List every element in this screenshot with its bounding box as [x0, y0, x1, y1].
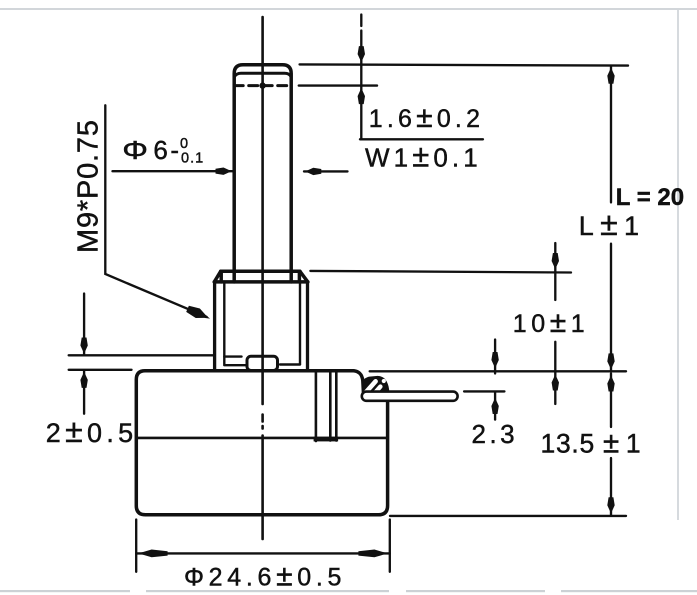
dimension 13.5±1: upper segment arrow up	[610, 374, 612, 427]
washer inner short lines	[224, 357, 300, 366]
dimension phi6: right line and arrow	[304, 170, 348, 172]
leader line M9*P0.75 with arrow	[105, 105, 206, 316]
shaft top chamfer line	[235, 73, 291, 76]
bushing top cap	[214, 271, 307, 282]
body step curve at top right	[354, 371, 364, 392]
center line (vertical axis of shaft and body)	[261, 17, 264, 539]
svg-text:W1±0.1: W1±0.1	[365, 139, 482, 174]
bushing outer walls	[215, 282, 308, 371]
dimension 1.6: top dashes and down arrow	[360, 15, 362, 27]
scan artifact: faint bottom border segments	[0, 590, 697, 592]
body mid seam line	[136, 437, 387, 440]
svg-text:Φ24.6±0.5: Φ24.6±0.5	[184, 559, 346, 592]
shaft outline	[234, 65, 291, 272]
dimension 2.3: upper segment arrow down	[494, 340, 496, 374]
extension line: shaft flat level to right	[299, 84, 377, 86]
svg-text:6-: 6-	[153, 135, 181, 165]
bushing inner (hex flat) walls	[224, 282, 300, 364]
extension line: body bottom left tick	[135, 520, 137, 572]
dimension 10±1: upper segment arrow down	[554, 243, 556, 300]
hatching gaps (white)	[366, 381, 375, 392]
extension line: body top to right	[370, 370, 626, 372]
svg-text:0.1: 0.1	[181, 151, 204, 167]
dimension 1.6: vertical through lines and up arrow	[360, 64, 362, 140]
scan artifact: faint right border line	[677, 10, 679, 520]
svg-text:13.5 ± 1: 13.5 ± 1	[541, 426, 642, 459]
dimension 2±0.5: lower segment arrow up	[83, 370, 85, 414]
anti-rotation tab	[247, 356, 278, 370]
svg-text:2.3: 2.3	[472, 419, 519, 449]
junction dot on centre line	[259, 82, 265, 88]
extension line: terminal top level	[464, 390, 504, 392]
svg-text:2±0.5: 2±0.5	[46, 413, 138, 449]
extension line: bushing top to right	[310, 271, 571, 273]
terminal mount (hatched lug base)	[362, 376, 389, 392]
scan artifact: faint top border line	[0, 8, 697, 10]
svg-text:10±1: 10±1	[513, 306, 590, 339]
shaft flat dashed line (W1)	[234, 84, 291, 87]
dimension 2±0.5: upper segment arrow down	[83, 294, 85, 355]
dimension L: upper segment arrow up at top	[610, 66, 612, 203]
svg-text:Φ: Φ	[122, 136, 148, 165]
washer top line extending left	[69, 354, 215, 356]
dimension 2.3: lower segment arrow up	[494, 392, 496, 420]
dimension phi24.6: line with outward arrows	[136, 552, 390, 554]
body outline	[136, 371, 387, 515]
svg-text:L = 20: L = 20	[616, 184, 684, 211]
dimension phi6: left line and arrow	[113, 170, 233, 172]
extension line: body bottom to right	[390, 515, 626, 517]
dimension 10±1: lower segment arrow up	[554, 342, 556, 404]
thick seam junction under internal lines	[314, 437, 339, 442]
dimension 1.6: leader underline	[360, 138, 483, 140]
extension line: body bottom right tick	[389, 520, 391, 572]
svg-text:L±1: L±1	[579, 206, 646, 242]
dimension 13.5±1: lower segment arrow down	[610, 458, 612, 515]
body top line extended left	[69, 369, 132, 371]
svg-text:M9*P0.75: M9*P0.75	[73, 119, 105, 253]
terminal lug bar	[362, 392, 458, 401]
dimension L: lower segment arrow down at body top	[610, 244, 612, 371]
body internal vertical lines	[316, 371, 336, 441]
extension line: shaft top to right	[300, 64, 628, 65]
svg-text:1.6±0.2: 1.6±0.2	[369, 101, 484, 134]
